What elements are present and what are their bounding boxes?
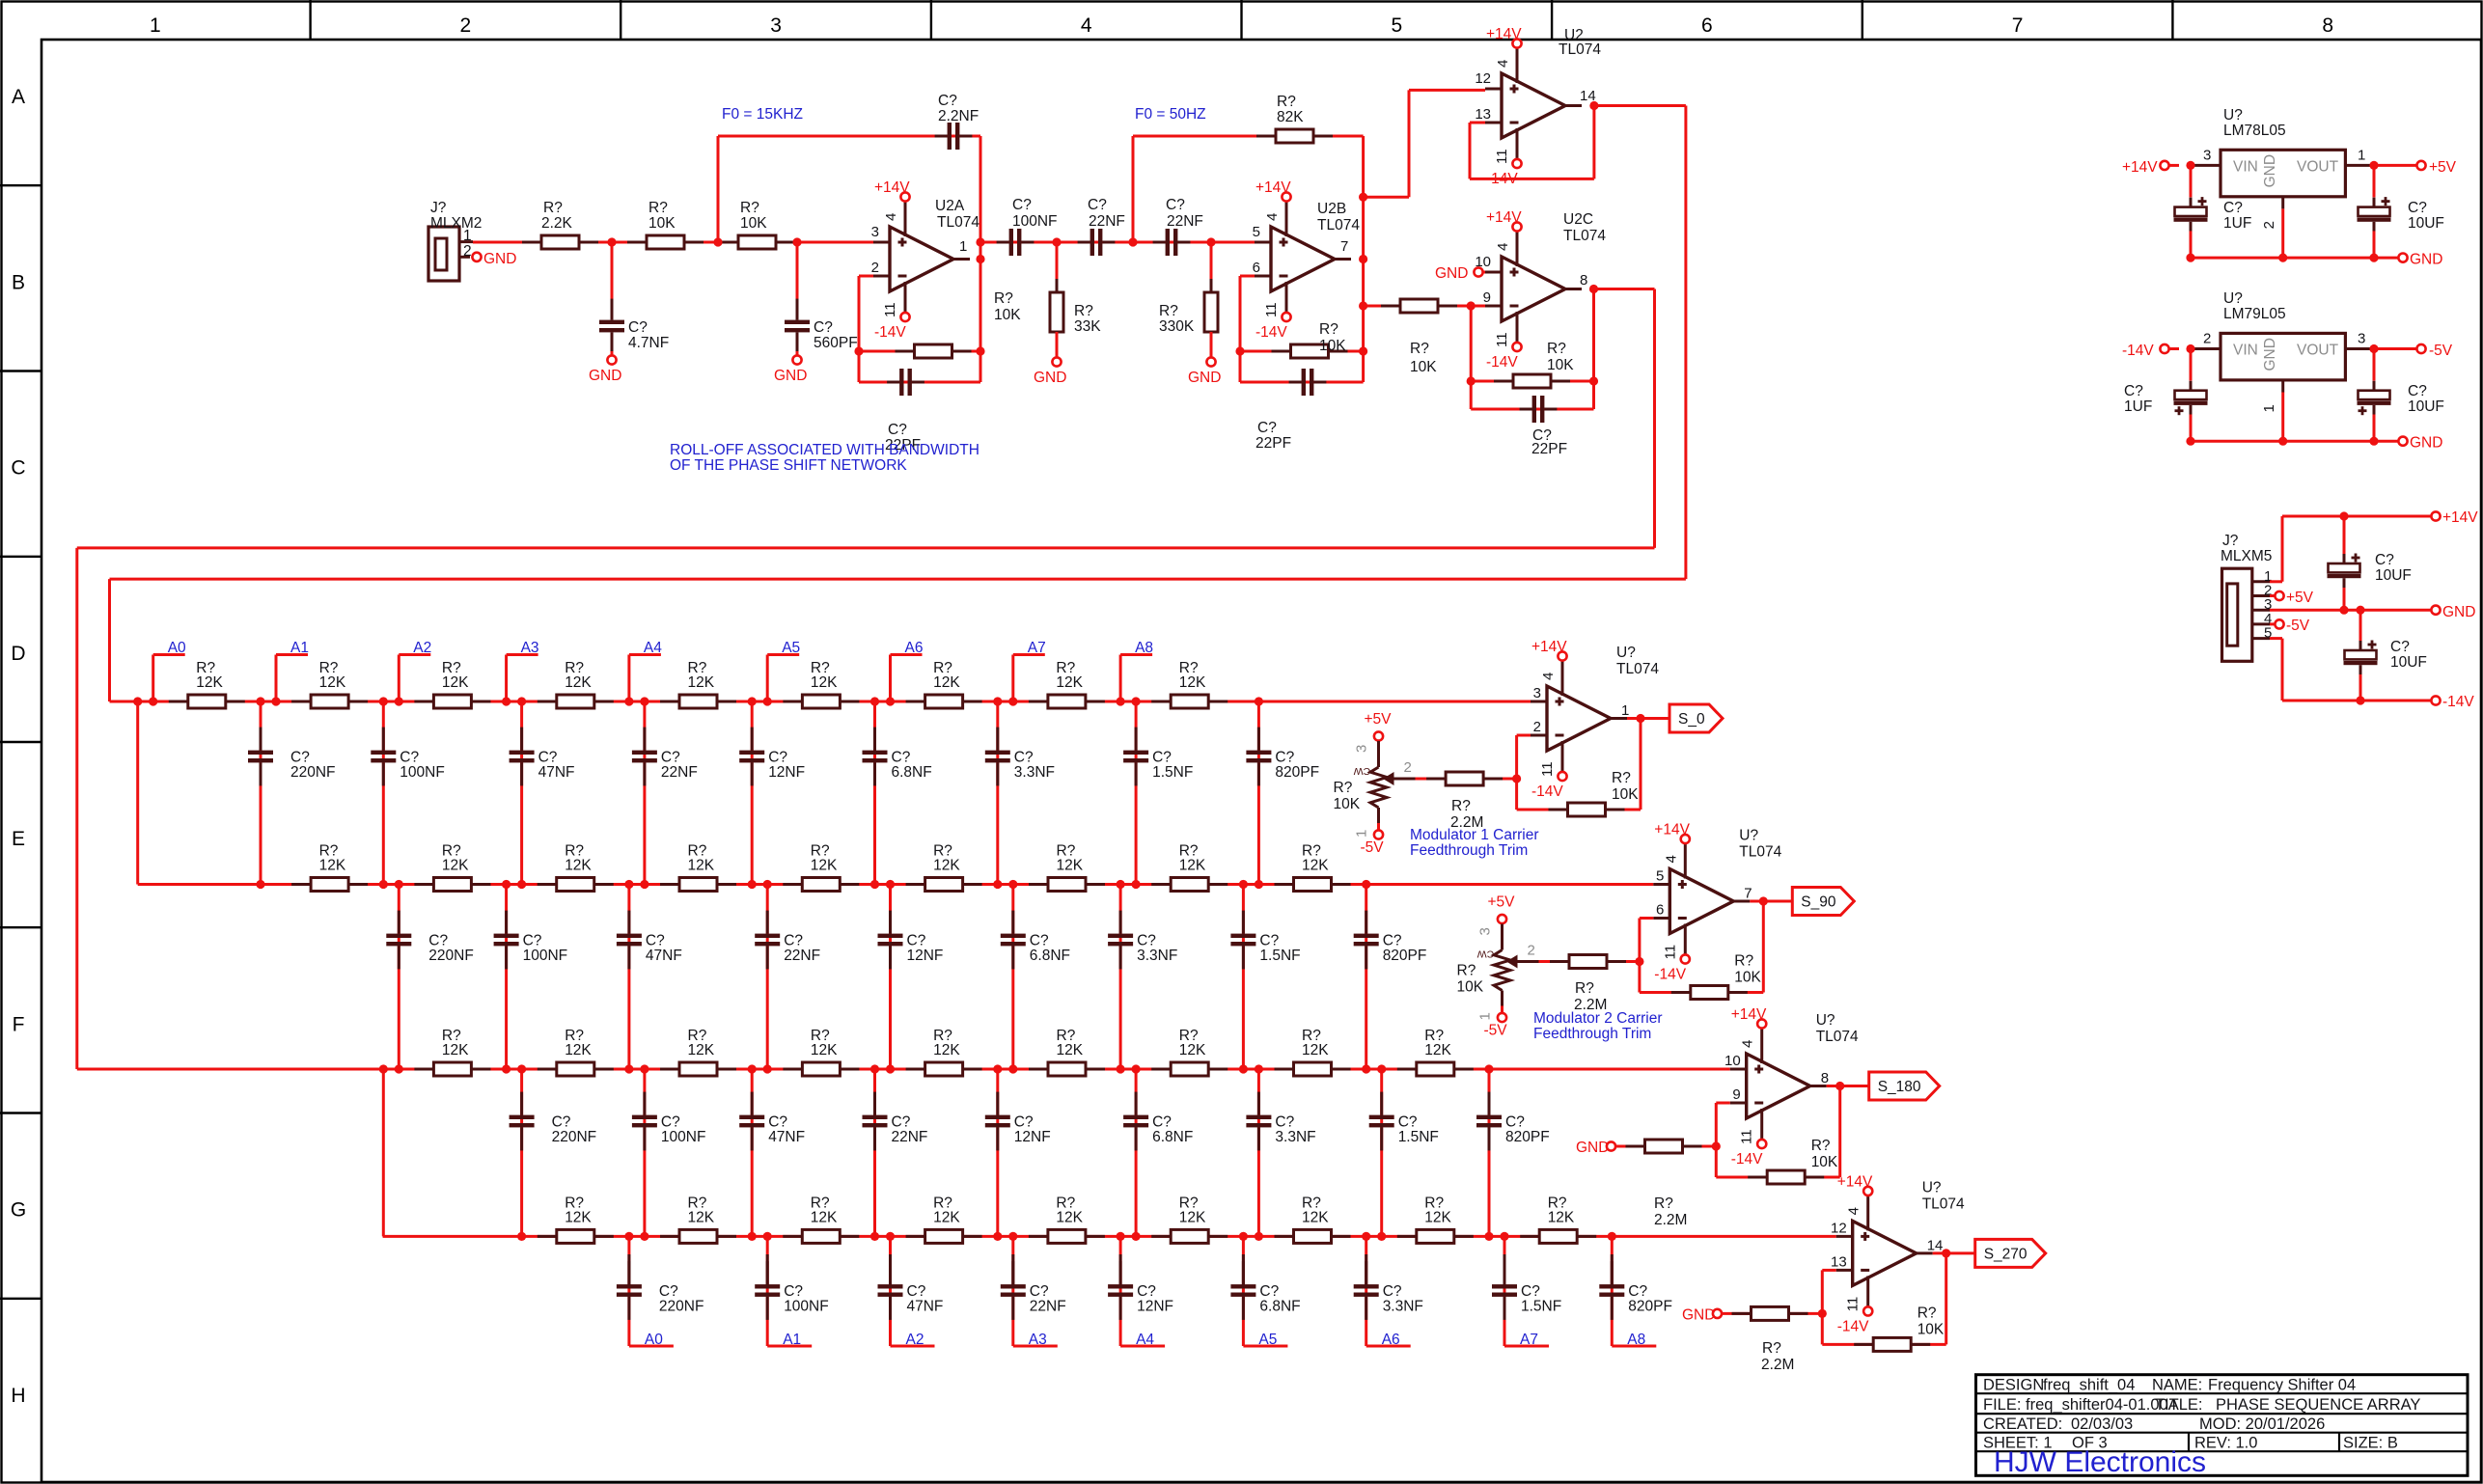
svg-text:1UF: 1UF (2124, 398, 2152, 415)
svg-text:TL074: TL074 (1922, 1195, 1965, 1212)
svg-text:6.8NF: 6.8NF (892, 764, 932, 781)
svg-text:C?: C? (907, 933, 926, 949)
svg-text:6.8NF: 6.8NF (1030, 948, 1070, 964)
svg-text:C?: C? (1257, 420, 1277, 436)
svg-text:22NF: 22NF (892, 1129, 928, 1145)
svg-text:A3: A3 (521, 640, 539, 656)
svg-text:F: F (13, 1013, 25, 1035)
svg-text:4: 4 (1740, 1040, 1756, 1048)
svg-text:C?: C? (1398, 1114, 1418, 1131)
svg-text:11: 11 (1845, 1297, 1862, 1312)
svg-text:220NF: 220NF (552, 1129, 597, 1145)
svg-text:G: G (11, 1199, 26, 1222)
svg-text:C?: C? (400, 750, 419, 766)
svg-text:1: 1 (1477, 1012, 1494, 1020)
svg-text:C?: C? (1275, 1114, 1294, 1131)
svg-text:12K: 12K (1424, 1042, 1451, 1058)
svg-text:-5V: -5V (2429, 343, 2453, 359)
svg-text:U2B: U2B (1317, 201, 1346, 217)
svg-text:22NF: 22NF (784, 948, 820, 964)
svg-text:C?: C? (1030, 933, 1049, 949)
svg-text:C?: C? (2408, 200, 2427, 216)
svg-text:A4: A4 (644, 640, 662, 656)
svg-text:C?: C? (1014, 750, 1034, 766)
svg-text:C?: C? (1259, 933, 1279, 949)
svg-text:3.3NF: 3.3NF (1014, 764, 1055, 781)
svg-text:U?: U? (1922, 1179, 1942, 1195)
svg-text:1.5NF: 1.5NF (1398, 1129, 1439, 1145)
svg-text:3: 3 (770, 14, 782, 37)
svg-text:TL074: TL074 (1317, 217, 1360, 234)
svg-text:10K: 10K (1917, 1321, 1945, 1337)
svg-text:J?: J? (2222, 533, 2239, 549)
svg-text:A7: A7 (1520, 1332, 1538, 1348)
svg-text:1: 1 (1354, 830, 1370, 838)
svg-text:1: 1 (1621, 702, 1629, 719)
svg-text:100NF: 100NF (661, 1129, 706, 1145)
svg-text:-14V: -14V (2442, 694, 2474, 710)
svg-text:10K: 10K (994, 307, 1021, 323)
svg-text:A4: A4 (1136, 1332, 1154, 1348)
svg-text:4: 4 (1495, 243, 1511, 251)
svg-text:12K: 12K (688, 1042, 715, 1058)
svg-text:C?: C? (1152, 750, 1172, 766)
svg-text:C?: C? (2375, 552, 2394, 568)
svg-text:12NF: 12NF (1014, 1129, 1051, 1145)
svg-text:F0 = 50HZ: F0 = 50HZ (1135, 106, 1206, 123)
svg-text:R?: R? (1074, 303, 1093, 319)
svg-text:12K: 12K (688, 1209, 715, 1225)
svg-text:12K: 12K (933, 1042, 960, 1058)
svg-text:CREATED:: CREATED: (1983, 1415, 2062, 1433)
svg-text:H: H (11, 1385, 25, 1407)
svg-text:GND: GND (2410, 435, 2442, 452)
svg-text:12K: 12K (565, 1042, 592, 1058)
svg-text:10UF: 10UF (2390, 654, 2427, 671)
svg-text:A1: A1 (290, 640, 309, 656)
svg-text:A3: A3 (1029, 1332, 1047, 1348)
svg-text:10UF: 10UF (2375, 567, 2412, 584)
svg-text:-14V: -14V (1531, 783, 1563, 800)
svg-text:R?: R? (1575, 980, 1594, 997)
svg-text:22PF: 22PF (1255, 435, 1291, 452)
svg-text:12K: 12K (1548, 1209, 1575, 1225)
svg-text:GND: GND (2262, 154, 2278, 187)
svg-text:C?: C? (538, 750, 558, 766)
svg-text:GND: GND (774, 368, 807, 384)
svg-text:-14V: -14V (1486, 354, 1518, 371)
svg-text:GND: GND (1682, 1306, 1715, 1323)
svg-text:C?: C? (552, 1114, 571, 1131)
svg-text:PHASE SEQUENCE ARRAY: PHASE SEQUENCE ARRAY (2216, 1396, 2420, 1414)
svg-text:+5V: +5V (2429, 159, 2457, 176)
svg-text:2.2NF: 2.2NF (938, 108, 979, 124)
svg-text:12K: 12K (1302, 858, 1329, 874)
svg-text:TL074: TL074 (1563, 228, 1606, 244)
svg-text:2: 2 (1528, 943, 1535, 959)
svg-text:3.3NF: 3.3NF (1383, 1299, 1423, 1315)
svg-text:2.2M: 2.2M (1654, 1212, 1687, 1228)
svg-text:C?: C? (2390, 639, 2410, 655)
svg-text:4: 4 (1540, 673, 1557, 680)
svg-text:C?: C? (938, 93, 957, 109)
svg-text:5: 5 (1656, 868, 1664, 885)
svg-text:22NF: 22NF (1089, 213, 1125, 230)
svg-text:TL074: TL074 (1816, 1029, 1859, 1045)
svg-text:+14V: +14V (2442, 509, 2478, 526)
svg-text:R?: R? (1612, 770, 1631, 786)
svg-text:S_180: S_180 (1878, 1079, 1921, 1095)
svg-text:CW: CW (1477, 948, 1495, 960)
svg-text:1.5NF: 1.5NF (1259, 948, 1300, 964)
svg-text:3: 3 (2203, 147, 2211, 163)
svg-text:MLXM5: MLXM5 (2221, 548, 2272, 564)
svg-text:47NF: 47NF (646, 948, 682, 964)
svg-text:C: C (11, 457, 25, 480)
svg-text:C?: C? (1383, 1283, 1402, 1300)
svg-text:TL074: TL074 (1739, 844, 1781, 861)
svg-text:2: 2 (1404, 759, 1412, 776)
svg-text:10UF: 10UF (2408, 398, 2444, 415)
svg-text:12K: 12K (1056, 674, 1083, 691)
svg-text:2: 2 (1533, 719, 1541, 735)
svg-text:9: 9 (1732, 1086, 1740, 1103)
svg-text:FILE: freq_shifter04-01.00A: FILE: freq_shifter04-01.00A (1983, 1396, 2179, 1414)
svg-text:LM79L05: LM79L05 (2223, 306, 2286, 322)
svg-text:A5: A5 (782, 640, 800, 656)
svg-text:TL074: TL074 (1616, 661, 1659, 677)
svg-text:ROLL-OFF ASSOCIATED WITH BANDW: ROLL-OFF ASSOCIATED WITH BANDWIDTH (670, 442, 979, 458)
svg-text:U?: U? (1816, 1012, 1835, 1029)
svg-text:-5V: -5V (2286, 618, 2310, 634)
svg-text:47NF: 47NF (768, 1129, 805, 1145)
svg-text:3: 3 (2358, 331, 2365, 347)
svg-text:+14V: +14V (2122, 159, 2158, 176)
svg-text:10K: 10K (740, 215, 767, 232)
svg-text:TL074: TL074 (937, 214, 979, 231)
svg-text:R?: R? (1410, 341, 1429, 357)
svg-text:-14V: -14V (1654, 967, 1686, 983)
svg-text:A2: A2 (413, 640, 431, 656)
svg-text:12K: 12K (811, 858, 838, 874)
svg-text:820PF: 820PF (1275, 764, 1319, 781)
svg-text:12K: 12K (1057, 858, 1084, 874)
svg-text:R?: R? (1457, 963, 1476, 979)
svg-text:U2C: U2C (1563, 211, 1593, 228)
svg-text:1.5NF: 1.5NF (1521, 1299, 1561, 1315)
svg-text:7: 7 (2012, 14, 2024, 37)
svg-text:11: 11 (882, 302, 898, 317)
svg-text:+14V: +14V (1837, 1173, 1873, 1190)
svg-text:GND: GND (2410, 251, 2442, 267)
svg-text:C?: C? (1088, 197, 1107, 213)
svg-text:12K: 12K (196, 674, 223, 691)
svg-text:12K: 12K (811, 674, 838, 691)
svg-text:10K: 10K (1319, 338, 1346, 354)
svg-text:A2: A2 (906, 1332, 924, 1348)
svg-text:12NF: 12NF (907, 948, 944, 964)
svg-text:C?: C? (1521, 1283, 1540, 1300)
svg-text:2: 2 (463, 243, 472, 260)
svg-text:GND: GND (1034, 370, 1066, 386)
svg-text:11: 11 (1263, 302, 1280, 317)
svg-text:10K: 10K (1334, 796, 1361, 812)
svg-text:R?: R? (1159, 303, 1178, 319)
svg-text:12K: 12K (933, 858, 960, 874)
svg-text:7: 7 (1744, 886, 1752, 902)
svg-text:12K: 12K (442, 858, 469, 874)
svg-text:-14V: -14V (874, 324, 906, 341)
svg-text:2.2M: 2.2M (1761, 1357, 1794, 1373)
svg-text:C?: C? (1166, 197, 1185, 213)
svg-text:HJW Electronics: HJW Electronics (1994, 1446, 2206, 1478)
svg-text:TITLE:: TITLE: (2155, 1396, 2203, 1414)
svg-text:VIN: VIN (2233, 343, 2258, 359)
svg-text:12K: 12K (1179, 1209, 1206, 1225)
svg-text:10K: 10K (1811, 1154, 1838, 1170)
svg-text:A8: A8 (1627, 1332, 1645, 1348)
svg-text:22PF: 22PF (1531, 441, 1567, 457)
svg-text:U2A: U2A (935, 198, 965, 214)
svg-text:11: 11 (1662, 945, 1678, 960)
svg-text:R?: R? (994, 290, 1013, 307)
svg-text:C?: C? (1137, 1283, 1156, 1300)
svg-text:12K: 12K (442, 1042, 469, 1058)
svg-text:6.8NF: 6.8NF (1152, 1129, 1193, 1145)
svg-text:B: B (12, 271, 25, 293)
svg-text:D: D (11, 643, 25, 665)
svg-text:A0: A0 (168, 640, 186, 656)
svg-text:+14V: +14V (874, 179, 910, 196)
svg-text:6.8NF: 6.8NF (1259, 1299, 1300, 1315)
svg-text:47NF: 47NF (907, 1299, 944, 1315)
svg-text:6: 6 (1253, 260, 1260, 276)
svg-text:330K: 330K (1159, 318, 1195, 335)
svg-text:U?: U? (1739, 828, 1758, 844)
svg-text:+14V: +14V (1531, 639, 1567, 655)
svg-text:C?: C? (1137, 933, 1156, 949)
svg-text:10: 10 (1724, 1053, 1741, 1069)
svg-text:22NF: 22NF (1167, 213, 1203, 230)
svg-text:C?: C? (2223, 200, 2243, 216)
svg-text:GND: GND (1188, 370, 1221, 386)
svg-text:820PF: 820PF (1383, 948, 1427, 964)
svg-text:4: 4 (883, 213, 899, 221)
svg-text:OF THE PHASE SHIFT NETWORK: OF THE PHASE SHIFT NETWORK (670, 457, 907, 474)
svg-text:C?: C? (784, 1283, 803, 1300)
svg-text:2: 2 (460, 14, 472, 37)
svg-text:R?: R? (1734, 953, 1753, 970)
svg-text:47NF: 47NF (538, 764, 575, 781)
svg-text:A: A (12, 86, 25, 108)
svg-text:Modulator 1 Carrier: Modulator 1 Carrier (1410, 827, 1539, 843)
svg-text:C?: C? (784, 933, 803, 949)
svg-text:C?: C? (628, 319, 648, 336)
svg-text:C?: C? (907, 1283, 926, 1300)
svg-text:Modulator 2 Carrier: Modulator 2 Carrier (1533, 1010, 1663, 1027)
svg-text:6: 6 (1656, 902, 1664, 919)
svg-text:14: 14 (1927, 1237, 1944, 1253)
svg-text:C?: C? (2124, 383, 2143, 399)
svg-text:A1: A1 (783, 1332, 801, 1348)
svg-text:12K: 12K (1179, 674, 1206, 691)
svg-text:+14V: +14V (1654, 822, 1690, 838)
svg-text:10K: 10K (1547, 357, 1574, 373)
svg-text:C?: C? (1012, 197, 1032, 213)
svg-text:MOD: 20/01/2026: MOD: 20/01/2026 (2199, 1415, 2325, 1433)
svg-text:+5V: +5V (1365, 711, 1393, 728)
svg-text:12NF: 12NF (1137, 1299, 1173, 1315)
svg-text:TL074: TL074 (1559, 41, 1601, 58)
svg-text:3: 3 (871, 224, 879, 240)
svg-text:E: E (12, 828, 25, 850)
svg-text:DESIGN: DESIGN (1983, 1377, 2044, 1394)
svg-text:R?: R? (648, 200, 668, 216)
svg-text:R?: R? (1547, 341, 1566, 357)
svg-text:1: 1 (959, 238, 967, 255)
svg-text:10K: 10K (1457, 979, 1484, 996)
svg-text:-14V: -14V (1255, 324, 1287, 341)
svg-text:10K: 10K (1410, 359, 1437, 375)
svg-text:C?: C? (661, 750, 680, 766)
svg-text:+14V: +14V (1255, 179, 1291, 196)
svg-text:82K: 82K (1277, 109, 1304, 125)
svg-text:12: 12 (1831, 1220, 1847, 1236)
svg-text:4: 4 (1846, 1207, 1862, 1215)
svg-text:F0 = 15KHZ: F0 = 15KHZ (722, 106, 803, 123)
svg-text:Feedthrough Trim: Feedthrough Trim (1410, 842, 1528, 859)
svg-text:12K: 12K (1179, 1042, 1206, 1058)
svg-text:5: 5 (1253, 224, 1260, 240)
svg-text:11: 11 (1539, 761, 1556, 777)
svg-text:3.3NF: 3.3NF (1275, 1129, 1315, 1145)
svg-text:-14V: -14V (1731, 1151, 1763, 1168)
svg-text:11: 11 (1739, 1129, 1755, 1144)
svg-text:12K: 12K (1424, 1209, 1451, 1225)
svg-text:GND: GND (2442, 604, 2475, 620)
svg-text:C?: C? (428, 933, 448, 949)
svg-text:6: 6 (1701, 14, 1713, 37)
svg-text:S_270: S_270 (1984, 1246, 2028, 1262)
svg-text:100NF: 100NF (1012, 213, 1058, 230)
svg-text:100NF: 100NF (784, 1299, 829, 1315)
svg-text:Frequency Shifter 04: Frequency Shifter 04 (2208, 1377, 2356, 1394)
svg-text:7: 7 (1340, 238, 1348, 255)
svg-text:3: 3 (1354, 745, 1370, 753)
svg-text:12K: 12K (688, 858, 715, 874)
svg-text:12K: 12K (933, 674, 960, 691)
svg-text:R?: R? (1762, 1340, 1781, 1357)
svg-text:2: 2 (2261, 221, 2277, 229)
svg-text:U?: U? (1616, 645, 1636, 661)
svg-text:R?: R? (1654, 1195, 1673, 1212)
svg-text:GND: GND (1435, 265, 1468, 282)
svg-text:10K: 10K (1612, 786, 1639, 803)
svg-text:100NF: 100NF (400, 764, 445, 781)
svg-text:A8: A8 (1135, 640, 1153, 656)
svg-text:8: 8 (1580, 272, 1587, 289)
svg-text:GND: GND (1576, 1140, 1609, 1156)
svg-text:C?: C? (290, 750, 310, 766)
svg-text:33K: 33K (1074, 318, 1101, 335)
svg-text:12K: 12K (442, 674, 469, 691)
svg-text:C?: C? (1628, 1283, 1647, 1300)
svg-text:12K: 12K (319, 674, 346, 691)
svg-text:820PF: 820PF (1505, 1129, 1550, 1145)
svg-text:R?: R? (1277, 94, 1296, 110)
svg-text:100NF: 100NF (523, 948, 568, 964)
svg-text:1: 1 (2358, 147, 2365, 163)
svg-text:R?: R? (1917, 1305, 1937, 1321)
svg-text:A6: A6 (905, 640, 924, 656)
svg-text:-14V: -14V (1837, 1318, 1869, 1334)
svg-text:C?: C? (892, 750, 911, 766)
svg-text:C?: C? (1505, 1114, 1525, 1131)
svg-text:12K: 12K (565, 1209, 592, 1225)
svg-text:C?: C? (768, 750, 787, 766)
svg-text:VOUT: VOUT (2297, 158, 2339, 175)
svg-text:C?: C? (814, 319, 833, 336)
svg-text:10UF: 10UF (2408, 215, 2444, 232)
svg-text:S_0: S_0 (1678, 711, 1705, 728)
svg-text:C?: C? (1275, 750, 1294, 766)
svg-text:R?: R? (1451, 798, 1471, 814)
svg-text:820PF: 820PF (1628, 1299, 1672, 1315)
svg-text:freq_shift_04: freq_shift_04 (2043, 1377, 2135, 1394)
svg-text:LM78L05: LM78L05 (2223, 123, 2286, 139)
svg-text:+14V: +14V (1486, 26, 1522, 42)
svg-text:-5V: -5V (1361, 839, 1385, 856)
svg-text:NAME:: NAME: (2152, 1377, 2202, 1394)
svg-text:12K: 12K (688, 674, 715, 691)
svg-text:8: 8 (2322, 14, 2333, 37)
svg-text:560PF: 560PF (814, 335, 858, 351)
svg-text:1: 1 (2261, 404, 2277, 412)
svg-text:R?: R? (1319, 321, 1338, 338)
svg-text:12K: 12K (1302, 1042, 1329, 1058)
svg-text:12K: 12K (811, 1042, 838, 1058)
svg-text:9: 9 (1483, 289, 1491, 306)
svg-text:GND: GND (483, 251, 516, 267)
svg-text:+14V: +14V (1486, 209, 1522, 226)
svg-text:-14V: -14V (2122, 343, 2154, 359)
svg-text:GND: GND (589, 368, 621, 384)
svg-text:R?: R? (543, 200, 563, 216)
svg-text:1UF: 1UF (2223, 215, 2251, 232)
svg-text:12K: 12K (1302, 1209, 1329, 1225)
svg-text:12K: 12K (1057, 1042, 1084, 1058)
svg-text:13: 13 (1831, 1253, 1847, 1270)
svg-text:C?: C? (1259, 1283, 1279, 1300)
svg-text:GND: GND (2262, 338, 2278, 371)
svg-text:02/03/03: 02/03/03 (2071, 1415, 2133, 1433)
svg-text:C?: C? (1014, 1114, 1034, 1131)
svg-text:220NF: 220NF (428, 948, 474, 964)
svg-text:8: 8 (1821, 1070, 1829, 1086)
svg-text:U?: U? (2223, 290, 2243, 307)
svg-text:C?: C? (1152, 1114, 1172, 1131)
svg-text:12K: 12K (811, 1209, 838, 1225)
svg-text:VIN: VIN (2233, 158, 2258, 175)
svg-text:J?: J? (430, 200, 447, 216)
svg-text:22NF: 22NF (661, 764, 698, 781)
svg-text:4.7NF: 4.7NF (628, 335, 669, 351)
svg-text:10K: 10K (648, 215, 676, 232)
svg-text:C?: C? (888, 422, 907, 438)
svg-text:12K: 12K (1056, 1209, 1083, 1225)
svg-text:MLXM2: MLXM2 (430, 215, 482, 232)
svg-text:A7: A7 (1028, 640, 1046, 656)
